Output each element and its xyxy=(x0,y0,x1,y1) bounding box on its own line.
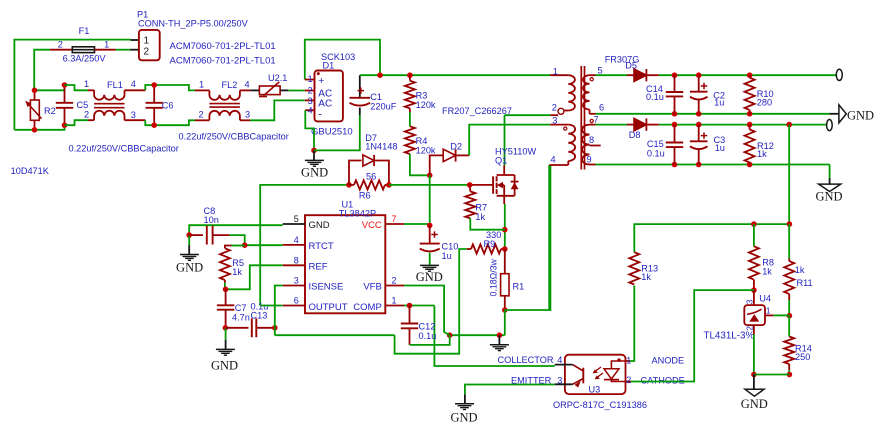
capacitor C8 xyxy=(189,234,203,236)
transformer T1 core xyxy=(580,66,582,170)
wire R13 to opto anode xyxy=(630,286,634,361)
svg-text:4: 4 xyxy=(245,80,250,90)
junction U4 gnd xyxy=(751,372,757,378)
junction R9 right xyxy=(502,246,508,252)
capacitor C14 xyxy=(674,75,676,92)
svg-text:4: 4 xyxy=(294,235,299,245)
svg-text:3: 3 xyxy=(744,299,754,304)
svg-text:FL1: FL1 xyxy=(107,80,123,90)
svg-text:ACM7060-701-2PL-TL01: ACM7060-701-2PL-TL01 xyxy=(170,56,276,67)
transformer primary winding 1-2 xyxy=(550,74,568,76)
svg-text:220uF: 220uF xyxy=(370,101,396,111)
capacitor C2 xyxy=(698,75,700,92)
svg-text:GND: GND xyxy=(450,410,477,424)
svg-text:CONN-TH_2P-P5.00/250V: CONN-TH_2P-P5.00/250V xyxy=(138,19,249,29)
svg-text:ANODE: ANODE xyxy=(652,356,685,366)
junction Q1 source R7 xyxy=(502,227,508,233)
wire bridge pin4 to GND xyxy=(305,110,314,150)
pin 6 stub xyxy=(283,305,305,307)
svg-text:2: 2 xyxy=(392,276,397,286)
pin 7 stub xyxy=(385,223,404,225)
wire OUTPUT xyxy=(260,305,283,307)
svg-text:2: 2 xyxy=(626,375,631,385)
svg-text:6: 6 xyxy=(599,103,604,113)
svg-text:120k: 120k xyxy=(416,146,436,156)
capacitor C7 xyxy=(225,289,227,305)
wire RTCT xyxy=(245,244,283,246)
svg-text:FL2: FL2 xyxy=(222,80,238,90)
svg-text:COLLECTOR: COLLECTOR xyxy=(498,355,554,365)
wire R4 to D2 junction xyxy=(410,154,430,175)
svg-text:3: 3 xyxy=(131,110,136,120)
junction rail2 R10 xyxy=(747,111,753,117)
ground C8 xyxy=(188,235,190,245)
svg-text:GND: GND xyxy=(176,261,203,275)
wire ISENSE down xyxy=(274,328,276,335)
regulator U4 TL431 xyxy=(744,305,765,325)
junction R2 bottom xyxy=(32,127,38,133)
capacitor C6 xyxy=(153,85,155,103)
capacitor C3 xyxy=(698,125,700,142)
svg-text:10D471K: 10D471K xyxy=(11,166,50,176)
svg-text:1: 1 xyxy=(308,74,313,84)
svg-text:U3: U3 xyxy=(589,385,601,395)
junction VCC C10 xyxy=(427,223,433,229)
svg-text:+: + xyxy=(318,75,324,87)
connector P1 xyxy=(139,30,160,60)
svg-text:OUTPUT: OUTPUT xyxy=(309,302,348,313)
svg-text:RTCT: RTCT xyxy=(309,241,334,252)
svg-text:1: 1 xyxy=(104,39,109,49)
wire feedback top rail xyxy=(634,224,789,252)
wire C12 bottom xyxy=(410,335,450,345)
junction out1 C14 xyxy=(672,72,678,78)
wire U4 to R11 xyxy=(774,314,790,316)
junction Q1 gate xyxy=(467,182,473,188)
wire D2 to VCC rail xyxy=(429,175,431,225)
junction C5 top xyxy=(62,82,68,88)
optocoupler U3 xyxy=(565,355,626,394)
resistor R10 xyxy=(745,78,755,110)
wire out1 rail xyxy=(646,74,659,76)
svg-text:R4: R4 xyxy=(416,136,428,146)
wire R6 to gate xyxy=(389,184,470,186)
wire VCC xyxy=(404,223,430,225)
pin U3 emitter stub xyxy=(555,383,573,385)
svg-text:6: 6 xyxy=(294,296,299,306)
wire pin4 down xyxy=(549,165,550,310)
junction rail4 C3 xyxy=(696,162,702,168)
pin U3 cathode stub xyxy=(626,381,631,383)
ground bridge xyxy=(313,150,315,160)
junction rail GND xyxy=(497,332,503,338)
resistor R7 xyxy=(469,185,472,192)
choke FL1 xyxy=(88,89,94,91)
svg-text:4: 4 xyxy=(557,355,562,365)
svg-text:9: 9 xyxy=(587,155,592,165)
svg-text:0.1u: 0.1u xyxy=(647,148,665,158)
wire out2 rail xyxy=(646,124,659,126)
junction R5 bottom xyxy=(223,287,229,293)
svg-text:R2: R2 xyxy=(44,106,56,116)
svg-text:D1: D1 xyxy=(323,60,335,70)
junction R2 top xyxy=(32,88,38,94)
svg-text:3: 3 xyxy=(552,115,557,125)
wire FL1 to C6 bottom xyxy=(145,120,154,125)
ground triangle out xyxy=(819,184,841,191)
svg-text:1: 1 xyxy=(553,66,558,76)
capacitor C15 xyxy=(674,125,676,143)
svg-text:1: 1 xyxy=(392,296,397,306)
svg-text:D2: D2 xyxy=(450,142,462,152)
svg-text:1: 1 xyxy=(626,355,631,365)
capacitor C12 xyxy=(409,306,411,324)
svg-text:1k: 1k xyxy=(475,212,485,222)
wire COMP xyxy=(404,305,434,307)
svg-text:TL3842P: TL3842P xyxy=(339,208,376,218)
pin 4 stub xyxy=(283,244,305,246)
svg-text:ISENSE: ISENSE xyxy=(309,282,344,293)
wire VFB xyxy=(404,286,450,336)
svg-text:GND: GND xyxy=(211,358,238,372)
svg-text:56: 56 xyxy=(366,171,376,181)
svg-text:3: 3 xyxy=(294,276,299,286)
svg-text:GND: GND xyxy=(847,109,874,123)
capacitor C13 xyxy=(226,327,249,329)
svg-text:4: 4 xyxy=(308,106,313,116)
junction C6 bottom xyxy=(151,122,157,128)
svg-text:4.7n: 4.7n xyxy=(232,312,250,322)
ground C10 xyxy=(420,264,439,266)
net flag GND pennant xyxy=(829,113,839,115)
svg-text:Q1: Q1 xyxy=(495,155,507,165)
svg-text:1u: 1u xyxy=(442,251,452,261)
wire gnd row xyxy=(754,374,789,376)
wire Q1 drain to pin2 xyxy=(505,114,551,116)
svg-text:F1: F1 xyxy=(79,26,90,36)
junction out1 C2 xyxy=(696,72,702,78)
svg-text:2: 2 xyxy=(199,110,204,120)
svg-text:1k: 1k xyxy=(762,266,772,276)
svg-text:1k: 1k xyxy=(757,149,767,159)
svg-text:1k: 1k xyxy=(795,265,805,275)
choke FL2 xyxy=(195,89,209,91)
wire F1 to P1 pin2 xyxy=(116,49,130,51)
diode D5 xyxy=(634,69,646,81)
junction HV corner xyxy=(377,72,383,78)
svg-text:4: 4 xyxy=(551,155,556,165)
wire ISENSE xyxy=(275,286,283,328)
svg-text:5: 5 xyxy=(598,65,603,75)
capacitor C1 xyxy=(359,75,361,97)
svg-text:GBU2510: GBU2510 xyxy=(311,127,353,138)
ground emitter xyxy=(464,394,466,403)
junction R11 top xyxy=(787,221,793,227)
svg-text:D5: D5 xyxy=(625,60,637,70)
wire pin5 to D5 xyxy=(596,74,628,76)
wire U4 cathode down xyxy=(753,290,755,305)
svg-text:ORPC-817C_C191386: ORPC-817C_C191386 xyxy=(553,400,647,410)
wire D2 to transformer pin3 xyxy=(469,125,550,156)
wire snubber Q1 drain xyxy=(504,115,506,165)
svg-text:4: 4 xyxy=(131,79,136,89)
pin 2 stub xyxy=(385,285,404,287)
wire rail4 to GND triangle xyxy=(829,165,831,179)
pin U3 collector stub xyxy=(555,364,573,366)
svg-text:2: 2 xyxy=(144,46,150,57)
svg-text:1u: 1u xyxy=(715,143,725,153)
transformer secondary winding 5-6 xyxy=(590,74,596,76)
svg-text:GND: GND xyxy=(301,166,328,180)
svg-text:1N4148: 1N4148 xyxy=(365,141,397,151)
svg-text:GND: GND xyxy=(741,397,768,411)
wire out2 to feedback rail xyxy=(788,125,790,225)
resistor R13 xyxy=(629,252,639,284)
diode D2 xyxy=(430,155,443,175)
junction C6 top xyxy=(151,82,157,88)
pin 1 stub xyxy=(385,305,404,307)
junction C5 bottom xyxy=(62,122,68,128)
junction R3 top xyxy=(407,72,413,78)
pin out2+ xyxy=(827,120,833,131)
junction R1 bottom xyxy=(502,307,508,313)
bridge rectifier D1 xyxy=(305,79,315,81)
svg-text:0.22uf/250V/CBBCapacitor: 0.22uf/250V/CBBCapacitor xyxy=(179,132,289,142)
svg-text:1: 1 xyxy=(144,35,150,46)
junction out1 R10 xyxy=(747,72,753,78)
wire bridge pin1 to top xyxy=(305,40,380,80)
wire REF xyxy=(226,265,283,289)
svg-text:R9: R9 xyxy=(484,239,496,249)
resistor R8 xyxy=(753,224,755,246)
svg-text:REF: REF xyxy=(309,261,328,272)
junction bridge GND xyxy=(311,148,317,154)
svg-text:R1: R1 xyxy=(513,282,525,292)
junction rail4 C15 xyxy=(672,162,678,168)
svg-text:C12: C12 xyxy=(419,321,436,331)
svg-text:1: 1 xyxy=(199,80,204,90)
resistor R3 xyxy=(409,75,411,81)
wire AC L top xyxy=(14,40,130,130)
svg-text:0.18Ω/3w: 0.18Ω/3w xyxy=(489,258,499,296)
wire HV rail xyxy=(360,74,550,76)
fusible resistor U2.1 xyxy=(250,89,259,91)
junction C13 right xyxy=(272,325,278,331)
resistor R11 xyxy=(788,224,790,258)
svg-text:R11: R11 xyxy=(797,278,813,288)
svg-text:D8: D8 xyxy=(629,130,641,140)
junction R8 top xyxy=(751,221,757,227)
wire FL1 to C6 top xyxy=(145,85,154,90)
svg-text:GND: GND xyxy=(416,270,443,284)
resistor R5 xyxy=(232,245,245,247)
junction R6 left xyxy=(346,182,352,188)
wire C5 to FL1 top xyxy=(65,85,89,90)
ground C7 xyxy=(225,328,227,340)
pin U3 anode stub xyxy=(626,360,631,362)
svg-text:C5: C5 xyxy=(77,100,89,110)
svg-text:2: 2 xyxy=(84,110,89,120)
junction U4 ref xyxy=(751,287,757,293)
wire R1 bottom to transformer pin4 xyxy=(505,165,551,310)
svg-text:GND: GND xyxy=(309,220,330,231)
svg-text:R6: R6 xyxy=(359,191,371,201)
diode D7 with resistor R6 xyxy=(349,161,362,185)
junction C8 left xyxy=(186,232,192,238)
wire P1 pin1 stub xyxy=(131,39,140,41)
capacitor C5 xyxy=(64,85,66,103)
svg-text:FR207_C266267: FR207_C266267 xyxy=(442,106,512,116)
resistor R9 xyxy=(467,248,471,250)
svg-text:250: 250 xyxy=(795,352,810,362)
svg-text:120k: 120k xyxy=(416,100,436,110)
svg-text:0.1u: 0.1u xyxy=(419,331,437,341)
wire R3 to R4 xyxy=(409,112,411,126)
wire fuse to R2 xyxy=(34,50,50,91)
pin 3 stub xyxy=(283,285,305,287)
wire C8 to RTCT xyxy=(229,235,244,245)
svg-text:C6: C6 xyxy=(162,101,174,111)
junction C7 bottom xyxy=(223,325,229,331)
svg-text:TL431L-3%: TL431L-3% xyxy=(704,331,755,342)
svg-text:0.1u: 0.1u xyxy=(646,92,664,102)
wire Q1 source down xyxy=(504,204,506,249)
pin out1+ xyxy=(836,69,842,80)
pin 5 stub xyxy=(283,223,305,225)
pin 8 stub xyxy=(283,264,305,266)
wire emitter to gnd xyxy=(465,385,555,395)
junction rail VFB xyxy=(447,332,453,338)
varistor R2 xyxy=(34,90,36,100)
svg-text:1: 1 xyxy=(84,79,89,89)
junction R6 right xyxy=(386,182,392,188)
resistor R1 xyxy=(504,249,506,274)
resistor R14 xyxy=(788,316,790,337)
wire pin7 to D8 xyxy=(596,124,628,126)
svg-text:-: - xyxy=(318,109,322,121)
svg-text:U4: U4 xyxy=(759,293,771,303)
svg-text:R3: R3 xyxy=(416,90,428,100)
svg-text:8: 8 xyxy=(589,135,594,145)
wire FL2 pin3 to bridge pin3 xyxy=(250,100,305,120)
svg-text:6.3A/250V: 6.3A/250V xyxy=(63,53,107,63)
svg-text:0.22uf/250V/CBBCapacitor: 0.22uf/250V/CBBCapacitor xyxy=(69,143,179,153)
svg-text:2: 2 xyxy=(552,102,557,112)
junction RTCT xyxy=(242,242,248,248)
junction R11 R14 xyxy=(787,313,793,319)
wire R1 bottom to ground rail xyxy=(504,310,506,335)
svg-text:3: 3 xyxy=(308,96,313,106)
wire pin6 rail xyxy=(596,113,830,115)
svg-text:C13: C13 xyxy=(251,311,268,321)
svg-text:C1: C1 xyxy=(370,92,382,102)
wire C1 bottom to GND xyxy=(314,115,360,150)
svg-text:VFB: VFB xyxy=(363,282,381,293)
svg-text:VCC: VCC xyxy=(362,220,382,231)
resistor R4 xyxy=(405,126,415,154)
diode D8 xyxy=(634,118,646,130)
wire C5 to FL1 bottom xyxy=(65,120,89,125)
fuse F1 xyxy=(50,49,72,51)
svg-text:GND: GND xyxy=(815,189,842,203)
svg-text:3: 3 xyxy=(557,375,562,385)
junction out2 branch xyxy=(786,122,792,128)
wire gate rail xyxy=(260,185,349,306)
wire top rail R2-C5 xyxy=(35,85,65,90)
wire R9 left to sense xyxy=(395,249,467,354)
svg-text:U2.1: U2.1 xyxy=(268,73,287,83)
svg-text:2: 2 xyxy=(308,86,313,96)
transformer primary winding 3-4 xyxy=(550,124,568,126)
wire U2.1 to bridge pin2 xyxy=(288,90,304,92)
transformer secondary winding 7-8-9 xyxy=(590,124,596,126)
svg-text:2: 2 xyxy=(58,39,63,49)
resistor R12 xyxy=(749,125,751,130)
svg-text:3: 3 xyxy=(245,110,250,120)
svg-text:5: 5 xyxy=(294,214,299,224)
capacitor C10 xyxy=(429,225,431,243)
svg-text:7: 7 xyxy=(594,115,599,125)
junction out2 C3 xyxy=(696,122,702,128)
junction rail2 C14 xyxy=(672,111,678,117)
wire pin5 to C8 gnd xyxy=(189,225,283,235)
svg-text:1u: 1u xyxy=(714,97,724,107)
svg-text:10n: 10n xyxy=(204,215,219,225)
ground R1 xyxy=(498,335,500,345)
svg-text:8: 8 xyxy=(294,255,299,265)
ground U4 xyxy=(753,375,755,390)
svg-text:1k: 1k xyxy=(232,267,242,277)
junction R14 bottom xyxy=(787,372,793,378)
svg-text:C10: C10 xyxy=(442,241,459,251)
svg-text:1k: 1k xyxy=(641,272,651,282)
wire AC bottom rail xyxy=(14,129,34,131)
junction rail2 C2 xyxy=(696,111,702,117)
junction rail4 R12 xyxy=(747,162,753,168)
junction D2 anode xyxy=(427,173,433,179)
wire pin9 rail xyxy=(596,164,830,166)
wire COMP to collector xyxy=(434,306,554,367)
junction COMP C12 xyxy=(407,303,413,309)
IC U1 TL3842P xyxy=(305,215,385,313)
junction out2 R12 xyxy=(747,122,753,128)
wire cathode to U4 ref xyxy=(631,290,754,381)
svg-text:7: 7 xyxy=(392,214,397,224)
svg-text:280: 280 xyxy=(757,98,772,108)
wire sense ground rail xyxy=(275,334,395,336)
svg-text:COMP: COMP xyxy=(353,302,382,313)
svg-text:1: 1 xyxy=(766,305,771,315)
svg-text:ACM7060-701-2PL-TL01: ACM7060-701-2PL-TL01 xyxy=(170,41,276,52)
mosfet Q1 xyxy=(470,184,493,186)
junction out2 C15 xyxy=(672,122,678,128)
